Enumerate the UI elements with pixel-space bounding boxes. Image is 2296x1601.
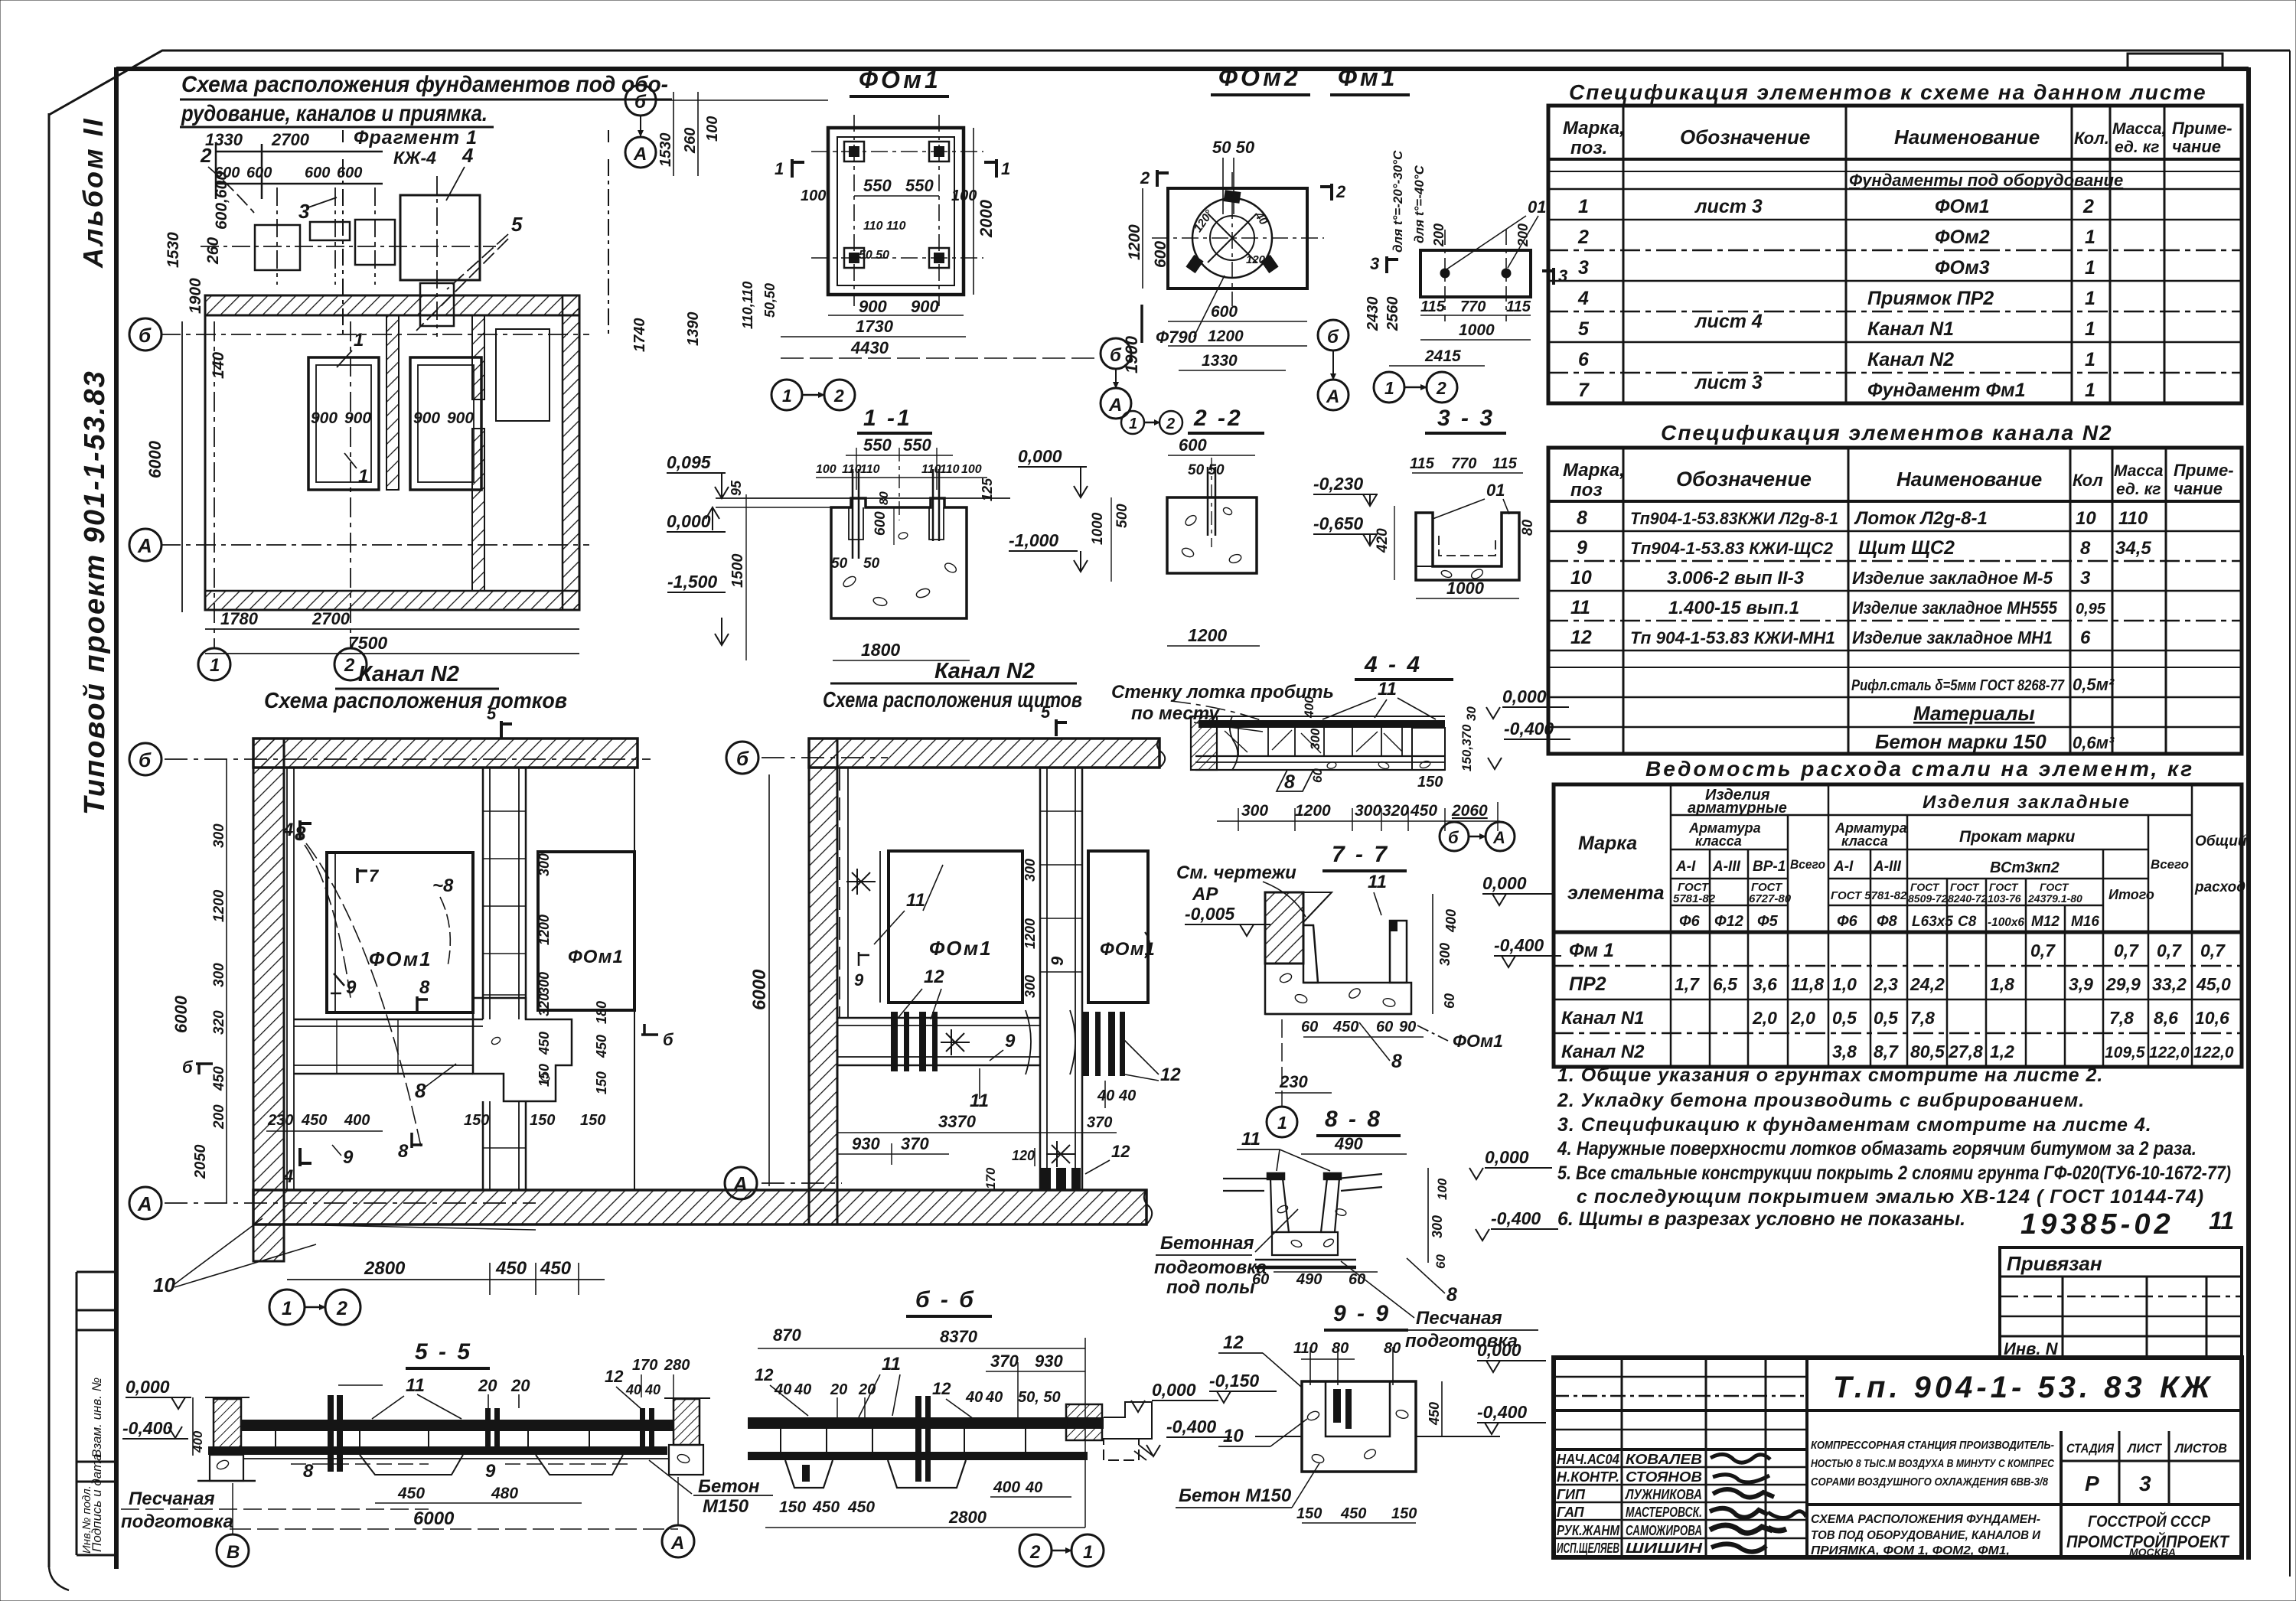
svg-text:10: 10 bbox=[2076, 508, 2096, 529]
svg-text:8 - 8: 8 - 8 bbox=[1325, 1107, 1382, 1132]
svg-text:для t°=-20°-30°С: для t°=-20°-30°С bbox=[1391, 150, 1405, 253]
svg-text:с последующим покрытием эмал: с последующим покрытием эмалью ХВ-124 ( … bbox=[1577, 1186, 2204, 1208]
svg-text:230: 230 bbox=[267, 1112, 293, 1129]
svg-text:М12: М12 bbox=[2031, 914, 2060, 930]
svg-text:4 - 4: 4 - 4 bbox=[1364, 652, 1422, 677]
svg-text:2: 2 bbox=[200, 144, 212, 167]
svg-text:6. Щиты в разрезах условно: 6. Щиты в разрезах условно не показаны. bbox=[1557, 1208, 1965, 1230]
svg-text:9: 9 bbox=[346, 977, 357, 998]
bottom axis circles 1 2 bbox=[1374, 372, 1404, 403]
main title block outer bbox=[1554, 1358, 2242, 1557]
svg-text:27,8: 27,8 bbox=[1948, 1042, 1983, 1061]
centrelines bbox=[1152, 237, 1324, 239]
bottom dims 60 490 60 bbox=[1274, 1271, 1378, 1273]
svg-text:3,8: 3,8 bbox=[1832, 1042, 1857, 1061]
dark shield anchor blobs bbox=[1041, 1168, 1051, 1191]
svg-text:3370: 3370 bbox=[938, 1112, 977, 1131]
svg-text:280: 280 bbox=[664, 1357, 690, 1374]
svg-text:1: 1 bbox=[1129, 416, 1137, 432]
svg-text:120°: 120° bbox=[1246, 253, 1270, 266]
svg-text:100: 100 bbox=[816, 463, 837, 476]
svg-text:Канал N2: Канал N2 bbox=[358, 662, 459, 686]
block outline bbox=[831, 498, 967, 618]
svg-text:3,6: 3,6 bbox=[1753, 974, 1777, 994]
svg-text:1: 1 bbox=[2085, 227, 2095, 248]
svg-text:900: 900 bbox=[859, 297, 887, 316]
svg-text:550: 550 bbox=[905, 176, 934, 195]
svg-text:40: 40 bbox=[1251, 209, 1270, 228]
svg-text:Изделие закладное МН1: Изделие закладное МН1 bbox=[1852, 628, 2053, 647]
svg-text:450: 450 bbox=[301, 1112, 327, 1129]
left margin stamp column bbox=[77, 1272, 116, 1555]
svg-text:Лоток Л2g-8-1: Лоток Л2g-8-1 bbox=[1854, 508, 1988, 529]
svg-text:~8: ~8 bbox=[432, 875, 454, 896]
svg-text:Тп904-1-53.83КЖИ Л2g-8-1: Тп904-1-53.83КЖИ Л2g-8-1 bbox=[1630, 509, 1838, 528]
svg-text:А-I: А-I bbox=[1675, 859, 1696, 875]
svg-text:110: 110 bbox=[1293, 1340, 1318, 1357]
trough right flared wall bbox=[1321, 1179, 1339, 1232]
privyazan box bbox=[2000, 1247, 2242, 1358]
interior niche outline bbox=[496, 329, 550, 421]
svg-text:40: 40 bbox=[985, 1389, 1003, 1406]
svg-text:300: 300 bbox=[1241, 802, 1268, 820]
foundation FOm1 left bbox=[327, 853, 473, 1012]
svg-text:РУК.ЖАНМ: РУК.ЖАНМ bbox=[1557, 1523, 1620, 1538]
bottom axis circles 1 2 bbox=[198, 648, 230, 680]
axis circle B bbox=[129, 318, 161, 351]
svg-text:9 - 9: 9 - 9 bbox=[1333, 1301, 1391, 1326]
svg-text:1200: 1200 bbox=[1188, 625, 1227, 645]
svg-text:9: 9 bbox=[343, 1147, 354, 1168]
svg-text:4: 4 bbox=[282, 1166, 293, 1187]
svg-text:3: 3 bbox=[2080, 568, 2091, 589]
svg-text:150: 150 bbox=[536, 1064, 552, 1087]
svg-text:50,50: 50,50 bbox=[762, 283, 778, 318]
svg-text:60: 60 bbox=[1252, 1271, 1269, 1288]
svg-text:КЖ-4: КЖ-4 bbox=[393, 148, 436, 168]
strip dark band bbox=[1199, 720, 1445, 728]
svg-text:-0,650: -0,650 bbox=[1313, 514, 1363, 533]
U channel left wall bbox=[1303, 925, 1318, 983]
svg-text:115: 115 bbox=[1420, 298, 1446, 315]
svg-text:0,7: 0,7 bbox=[2200, 941, 2226, 960]
svg-text:11,8: 11,8 bbox=[1791, 974, 1824, 994]
svg-text:ГАП: ГАП bbox=[1557, 1505, 1585, 1520]
svg-text:6: 6 bbox=[1578, 349, 1590, 370]
svg-text:Кол.: Кол. bbox=[2074, 129, 2109, 148]
svg-text:115: 115 bbox=[1506, 298, 1531, 315]
svg-text:СХЕМА РАСПОЛОЖЕНИЯ ФУНДАМЕН-: СХЕМА РАСПОЛОЖЕНИЯ ФУНДАМЕН- bbox=[1811, 1513, 2040, 1526]
svg-text:А: А bbox=[670, 1533, 684, 1554]
svg-text:8509-72: 8509-72 bbox=[1908, 892, 1948, 905]
svg-text:Общий: Общий bbox=[2195, 833, 2247, 849]
svg-text:8: 8 bbox=[1577, 507, 1587, 529]
inner dashed channel bbox=[1439, 536, 1495, 556]
svg-text:450: 450 bbox=[397, 1485, 425, 1502]
svg-text:10: 10 bbox=[1223, 1426, 1244, 1446]
right side vertical dim lines bbox=[1432, 894, 1433, 1014]
svg-text:б - б: б - б bbox=[915, 1287, 976, 1312]
svg-text:А: А bbox=[1108, 395, 1122, 416]
right step blocks bbox=[1104, 1402, 1152, 1439]
svg-text:А-III: А-III bbox=[1712, 859, 1741, 875]
svg-text:б: б bbox=[1110, 345, 1122, 366]
svg-text:1530: 1530 bbox=[657, 133, 674, 168]
svg-text:180: 180 bbox=[594, 1001, 609, 1024]
svg-text:8: 8 bbox=[303, 1461, 314, 1482]
svg-text:930: 930 bbox=[852, 1134, 880, 1153]
svg-text:600: 600 bbox=[1211, 303, 1238, 321]
svg-text:110: 110 bbox=[940, 463, 960, 476]
left hatched column bbox=[214, 1399, 241, 1448]
svg-text:11: 11 bbox=[1570, 597, 1590, 618]
svg-text:450: 450 bbox=[847, 1498, 875, 1516]
table2 column lines bbox=[1623, 448, 1625, 754]
concrete dots in slab bbox=[1279, 972, 1293, 984]
svg-text:1: 1 bbox=[1578, 196, 1589, 217]
right pedestal bbox=[669, 1445, 703, 1475]
svg-text:0,000: 0,000 bbox=[1482, 873, 1527, 893]
svg-text:8: 8 bbox=[398, 1141, 409, 1162]
anchor bolt bbox=[1207, 467, 1209, 536]
channel cell verticals bbox=[275, 1431, 276, 1446]
svg-text:М16: М16 bbox=[2071, 914, 2099, 930]
svg-text:2: 2 bbox=[1029, 1542, 1041, 1563]
svg-text:ТОВ ПОД ОБОРУДОВАНИЕ, КАНАЛОВ: ТОВ ПОД ОБОРУДОВАНИЕ, КАНАЛОВ И bbox=[1811, 1529, 2040, 1542]
svg-text:Кол: Кол bbox=[2073, 471, 2103, 490]
svg-text:Песчаная: Песчаная bbox=[1416, 1308, 1502, 1329]
svg-text:6727-80: 6727-80 bbox=[1749, 892, 1792, 905]
svg-text:1000: 1000 bbox=[1446, 579, 1485, 598]
svg-text:0,095: 0,095 bbox=[667, 452, 712, 472]
svg-text:100: 100 bbox=[801, 187, 826, 204]
svg-text:11: 11 bbox=[906, 890, 925, 911]
svg-text:ПР2: ПР2 bbox=[1569, 973, 1606, 995]
horizontal channel left part bbox=[294, 1019, 483, 1021]
svg-text:Фрагмент 1: Фрагмент 1 bbox=[354, 127, 478, 148]
svg-text:ГОСТ: ГОСТ bbox=[1910, 881, 1940, 893]
svg-text:0,6м³: 0,6м³ bbox=[2073, 733, 2115, 752]
right dim 450 bbox=[1441, 1381, 1443, 1436]
svg-text:1: 1 bbox=[2085, 380, 2095, 401]
table2 header bbox=[1548, 500, 2242, 503]
svg-text:300: 300 bbox=[1308, 728, 1322, 750]
svg-text:2,3: 2,3 bbox=[1873, 974, 1898, 994]
svg-text:ФОм1: ФОм1 bbox=[859, 66, 941, 93]
svg-text:Бетон М150: Бетон М150 bbox=[1179, 1485, 1292, 1506]
svg-text:0,5: 0,5 bbox=[1874, 1008, 1899, 1028]
main dark band bbox=[748, 1417, 1104, 1429]
svg-text:0,000: 0,000 bbox=[1502, 686, 1547, 706]
svg-text:Канал N1: Канал N1 bbox=[1561, 1008, 1645, 1029]
svg-text:9: 9 bbox=[1048, 956, 1067, 966]
svg-text:Масса: Масса bbox=[2114, 462, 2164, 480]
bolts bbox=[1440, 269, 1450, 278]
svg-text:1780: 1780 bbox=[220, 609, 259, 628]
svg-text:150: 150 bbox=[594, 1071, 609, 1094]
svg-text:1: 1 bbox=[354, 330, 364, 351]
svg-text:122,0: 122,0 bbox=[2149, 1044, 2190, 1061]
svg-text:12: 12 bbox=[605, 1367, 624, 1386]
right dim 2000 bbox=[973, 128, 974, 295]
table2 row lines bbox=[1548, 530, 2242, 533]
rebar diagonal marks in cells bbox=[1225, 730, 1402, 753]
trough bottom slab bbox=[1272, 1232, 1338, 1255]
svg-text:50, 50: 50, 50 bbox=[1018, 1389, 1061, 1406]
svg-text:1: 1 bbox=[1384, 378, 1394, 398]
svg-text:Тп 904-1-53.83 КЖИ-МН1: Тп 904-1-53.83 КЖИ-МН1 bbox=[1630, 628, 1835, 647]
bottom dim 1800 bbox=[833, 660, 970, 661]
svg-text:3: 3 bbox=[298, 200, 310, 223]
svg-text:300: 300 bbox=[1022, 859, 1038, 882]
bottom dims bbox=[1420, 315, 1531, 316]
svg-text:40: 40 bbox=[965, 1389, 983, 1406]
room top wall hatched bbox=[205, 295, 579, 315]
svg-text:1: 1 bbox=[358, 466, 368, 487]
svg-text:150: 150 bbox=[1417, 774, 1443, 791]
table1 row lines bbox=[1548, 219, 2242, 221]
ground line through block bbox=[1255, 1436, 1302, 1437]
svg-text:01: 01 bbox=[1528, 197, 1546, 217]
paper bottom-left corner curve bbox=[49, 1567, 69, 1590]
bottom wall hatched band continuous bbox=[253, 1190, 1146, 1224]
svg-text:1,0: 1,0 bbox=[1832, 974, 1857, 994]
svg-text:Обозначение: Обозначение bbox=[1680, 126, 1810, 148]
svg-text:1: 1 bbox=[2085, 288, 2095, 309]
svg-text:-0,400: -0,400 bbox=[122, 1418, 172, 1438]
svg-text:ЛИСТОВ: ЛИСТОВ bbox=[2174, 1441, 2227, 1456]
svg-text:б: б bbox=[736, 747, 749, 770]
svg-text:770: 770 bbox=[1460, 298, 1486, 315]
section mark 1 left bbox=[792, 159, 804, 178]
svg-text:Ф5: Ф5 bbox=[1757, 913, 1779, 930]
svg-text:300: 300 bbox=[536, 972, 552, 995]
svg-text:-0,150: -0,150 bbox=[1209, 1371, 1259, 1391]
svg-text:Р: Р bbox=[2085, 1472, 2099, 1495]
svg-text:400: 400 bbox=[344, 1112, 370, 1129]
svg-text:А: А bbox=[732, 1172, 748, 1195]
cross in circle bbox=[1208, 214, 1257, 262]
svg-text:8,6: 8,6 bbox=[2154, 1008, 2178, 1028]
svg-text:1. Общие указания о грунтах: 1. Общие указания о грунтах смотрите на … bbox=[1557, 1065, 2103, 1086]
svg-text:2: 2 bbox=[1336, 182, 1346, 201]
svg-text:11: 11 bbox=[1368, 872, 1387, 892]
section marks 2 bbox=[1157, 170, 1169, 187]
svg-text:9: 9 bbox=[1005, 1031, 1016, 1052]
svg-text:Ф790: Ф790 bbox=[1156, 328, 1198, 347]
axis circles B and A left bbox=[625, 85, 656, 116]
svg-text:-0,400: -0,400 bbox=[1494, 935, 1544, 955]
svg-text:29,9: 29,9 bbox=[2105, 974, 2141, 994]
svg-text:В: В bbox=[227, 1542, 240, 1563]
svg-text:ФОм1: ФОм1 bbox=[369, 947, 432, 970]
svg-text:370: 370 bbox=[901, 1134, 929, 1153]
svg-text:320: 320 bbox=[211, 1010, 227, 1035]
top wall hatched bbox=[253, 739, 638, 768]
bolt slots bbox=[849, 507, 863, 540]
vertical channel lower segment bbox=[482, 1101, 484, 1190]
svg-text:200: 200 bbox=[1431, 223, 1446, 247]
svg-text:лист 4: лист 4 bbox=[1694, 311, 1763, 332]
trapezoid pits bbox=[360, 1455, 463, 1475]
foundation block right bbox=[410, 357, 481, 490]
svg-text:490: 490 bbox=[1334, 1134, 1363, 1153]
left wall hatched bbox=[253, 739, 284, 1261]
section mark 4 top bbox=[300, 820, 311, 839]
svg-text:2: 2 bbox=[344, 655, 355, 676]
svg-text:450: 450 bbox=[495, 1258, 527, 1279]
svg-text:600: 600 bbox=[872, 511, 889, 536]
svg-text:0,000: 0,000 bbox=[1152, 1380, 1196, 1400]
svg-text:ВСт3кп2: ВСт3кп2 bbox=[1990, 859, 2060, 876]
svg-text:ФОм1: ФОм1 bbox=[929, 937, 993, 960]
svg-text:0,7: 0,7 bbox=[2157, 941, 2182, 960]
svg-text:Приме-: Приме- bbox=[2174, 461, 2234, 480]
svg-text:400: 400 bbox=[1443, 909, 1459, 933]
svg-text:122,0: 122,0 bbox=[2193, 1044, 2234, 1061]
svg-text:0,5: 0,5 bbox=[1832, 1008, 1857, 1028]
svg-text:120: 120 bbox=[1012, 1148, 1035, 1163]
bottom dims bbox=[205, 628, 579, 630]
left break hatched block bbox=[1191, 716, 1217, 770]
svg-text:Типовой проект 901-1-53.83: Типовой проект 901-1-53.83 bbox=[79, 370, 111, 815]
svg-text:САМОЖИРОВА: САМОЖИРОВА bbox=[1626, 1523, 1702, 1538]
svg-text:2 -2: 2 -2 bbox=[1193, 406, 1243, 431]
svg-text:0,000: 0,000 bbox=[667, 511, 711, 531]
axis circles B A bbox=[1440, 822, 1469, 851]
section marks 3 bbox=[1387, 256, 1398, 273]
section mark b left/right bbox=[196, 1064, 213, 1074]
svg-text:Н.КОНТР.: Н.КОНТР. bbox=[1557, 1469, 1619, 1485]
svg-text:01: 01 bbox=[1486, 481, 1505, 500]
label 8 flag lower bbox=[412, 1133, 422, 1148]
junction plus outline bbox=[473, 998, 572, 1101]
svg-text:1: 1 bbox=[210, 655, 220, 676]
svg-text:лист 3: лист 3 bbox=[1694, 372, 1763, 393]
svg-text:Спецификация элементов к схе: Спецификация элементов к схеме на данном… bbox=[1569, 80, 2207, 104]
svg-text:См. чертежи: См. чертежи bbox=[1176, 862, 1296, 883]
svg-text:1200: 1200 bbox=[1295, 802, 1331, 820]
svg-text:320: 320 bbox=[1382, 802, 1409, 820]
svg-text:Щит ЩС2: Щит ЩС2 bbox=[1858, 537, 1955, 559]
svg-text:L63x5: L63x5 bbox=[1912, 914, 1953, 930]
svg-text:арматурные: арматурные bbox=[1688, 800, 1787, 817]
svg-text:170: 170 bbox=[632, 1357, 657, 1374]
svg-text:3: 3 bbox=[2139, 1472, 2151, 1495]
svg-text:3: 3 bbox=[1558, 266, 1567, 285]
svg-text:б: б bbox=[634, 92, 647, 112]
svg-text:930: 930 bbox=[1035, 1352, 1063, 1371]
svg-text:4: 4 bbox=[1577, 288, 1589, 309]
svg-text:3.006-2 вып II-3: 3.006-2 вып II-3 bbox=[1667, 568, 1805, 589]
svg-text:6,5: 6,5 bbox=[1713, 974, 1738, 994]
svg-text:Изделия закладные: Изделия закладные bbox=[1923, 792, 2131, 813]
svg-text:класса: класса bbox=[1841, 833, 1888, 849]
svg-text:Привязан: Привязан bbox=[2007, 1252, 2102, 1275]
svg-text:0,95: 0,95 bbox=[2076, 601, 2106, 618]
pedestal trapezoid bbox=[785, 1460, 833, 1488]
svg-text:100: 100 bbox=[961, 463, 982, 476]
axis A circle bbox=[762, 1182, 842, 1184]
svg-text:5781-82: 5781-82 bbox=[1673, 892, 1716, 905]
axis circles B A bbox=[1101, 338, 1131, 369]
svg-text:М150: М150 bbox=[703, 1496, 749, 1517]
svg-text:Спецификация элементов канал: Спецификация элементов канала N2 bbox=[1661, 421, 2113, 445]
svg-text:9: 9 bbox=[854, 970, 864, 990]
svg-text:200: 200 bbox=[211, 1104, 227, 1130]
svg-text:100: 100 bbox=[704, 116, 721, 142]
svg-text:1,7: 1,7 bbox=[1675, 974, 1700, 994]
stage / sheet columns bbox=[2060, 1431, 2063, 1557]
svg-text:3: 3 bbox=[1578, 257, 1589, 279]
svg-text:1,2: 1,2 bbox=[1990, 1042, 2014, 1061]
svg-text:А: А bbox=[1492, 828, 1505, 847]
U channel right wall bbox=[1390, 921, 1407, 983]
svg-text:2. Укладку бетона производить: 2. Укладку бетона производить с вибриров… bbox=[1557, 1090, 2085, 1111]
svg-text:370: 370 bbox=[990, 1352, 1019, 1371]
svg-text:3. Спецификацию к фундамента: 3. Спецификацию к фундаментам смотрите н… bbox=[1557, 1114, 2152, 1136]
svg-text:60: 60 bbox=[1442, 993, 1457, 1009]
svg-text:2700: 2700 bbox=[271, 130, 310, 149]
svg-text:8,7: 8,7 bbox=[1874, 1042, 1899, 1061]
svg-text:150: 150 bbox=[580, 1112, 605, 1129]
svg-text:80: 80 bbox=[1384, 1340, 1401, 1357]
svg-text:3 - 3: 3 - 3 bbox=[1437, 406, 1495, 431]
svg-text:900: 900 bbox=[447, 409, 474, 427]
svg-text:11: 11 bbox=[2209, 1207, 2234, 1234]
svg-text:110 110: 110 110 bbox=[863, 220, 906, 233]
plan axis dash-dot bbox=[161, 334, 589, 335]
svg-text:Наименование: Наименование bbox=[1894, 126, 2040, 148]
svg-text:НАЧ.АС04: НАЧ.АС04 bbox=[1557, 1452, 1619, 1467]
svg-text:150: 150 bbox=[464, 1112, 489, 1129]
svg-text:260: 260 bbox=[204, 237, 222, 265]
frame right line bbox=[2246, 67, 2251, 1560]
svg-text:Схема расположения лотков: Схема расположения лотков bbox=[264, 689, 567, 713]
t3 header horizontal lines bbox=[1671, 814, 2192, 817]
svg-text:2430: 2430 bbox=[1365, 297, 1381, 332]
svg-text:ВР-1: ВР-1 bbox=[1753, 859, 1786, 875]
thin channel bottom lines bbox=[243, 1458, 670, 1459]
svg-text:7,8: 7,8 bbox=[1910, 1008, 1935, 1028]
svg-text:ГОСТ 5781-82: ГОСТ 5781-82 bbox=[1831, 889, 1907, 902]
fm1 body rect bbox=[1420, 250, 1531, 297]
svg-text:Ведомость расхода стали на эле: Ведомость расхода стали на элемент, кг bbox=[1645, 757, 2194, 781]
svg-text:Канал N2: Канал N2 bbox=[1867, 349, 1954, 370]
block bbox=[1167, 497, 1257, 573]
left dim column rotated bbox=[226, 759, 227, 1203]
svg-text:2: 2 bbox=[1140, 168, 1150, 187]
frame top tab notch bbox=[2128, 54, 2223, 67]
svg-text:40: 40 bbox=[794, 1381, 811, 1398]
svg-text:-100x6: -100x6 bbox=[1988, 916, 2024, 929]
svg-text:-0,400: -0,400 bbox=[1166, 1417, 1216, 1436]
bottom axis circles 1 2 bbox=[269, 1290, 305, 1325]
svg-text:6000: 6000 bbox=[171, 995, 191, 1033]
svg-text:Всего: Всего bbox=[2151, 857, 2189, 872]
svg-text:Канал N1: Канал N1 bbox=[1867, 318, 1954, 340]
foundation FOm1 middle bbox=[889, 851, 1022, 1003]
svg-text:870: 870 bbox=[773, 1325, 801, 1345]
svg-text:СТАДИЯ: СТАДИЯ bbox=[2066, 1441, 2115, 1456]
fragment dash-dot border bbox=[343, 130, 608, 337]
svg-text:чание: чание bbox=[2174, 479, 2223, 498]
svg-text:Прокат марки: Прокат марки bbox=[1959, 828, 2076, 846]
svg-text:Приме-: Приме- bbox=[2172, 119, 2232, 138]
svg-text:8: 8 bbox=[415, 1079, 426, 1102]
svg-text:1: 1 bbox=[782, 386, 792, 406]
paper left edge bbox=[48, 113, 51, 1567]
